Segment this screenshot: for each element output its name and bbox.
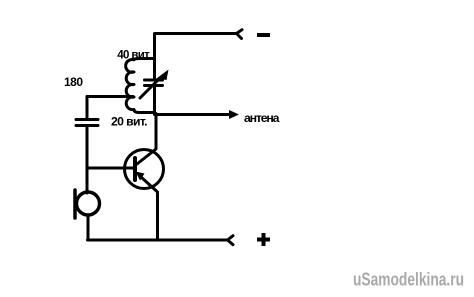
wire microphone to bottom rail bbox=[87, 215, 90, 240]
svg-text:20 вит.: 20 вит. bbox=[111, 114, 148, 128]
terminal fork minus bbox=[237, 30, 243, 39]
microphone BM1 plate bar bbox=[73, 190, 77, 218]
wire bottom rail (plus rail) bbox=[88, 239, 228, 242]
svg-text:антена: антена bbox=[244, 111, 280, 125]
variable capacitor C2 plates bbox=[145, 80, 163, 86]
terminal fork plus bbox=[228, 236, 234, 245]
wire left branch upper bbox=[86, 97, 89, 119]
wire antenna line bbox=[155, 113, 231, 116]
svg-text:uSamodelkina.ru: uSamodelkina.ru bbox=[353, 270, 464, 290]
microphone BM1 circle bbox=[77, 192, 100, 215]
svg-text:40 вит: 40 вит bbox=[117, 49, 150, 61]
transistor VT1 circle bbox=[125, 150, 164, 189]
transistor VT1 base bar bbox=[133, 158, 137, 180]
wire tank right branch vertical (top rail down to variable capacitor) bbox=[153, 34, 156, 80]
wire base wire bbox=[87, 167, 133, 170]
antenna arrowhead bbox=[229, 110, 239, 119]
wire left branch below capacitor bbox=[86, 126, 89, 193]
wire coil tap to left branch bbox=[87, 95, 133, 98]
transistor VT1 emitter with PNP arrow bbox=[141, 177, 158, 240]
wire variable capacitor bottom to tank bottom junction bbox=[153, 86, 156, 114]
capacitor C1 (180) plates bbox=[76, 120, 98, 126]
inductor L1 (tapped coil) bbox=[126, 59, 155, 113]
variable capacitor C2 arrow bbox=[140, 77, 161, 98]
svg-text:180: 180 bbox=[64, 75, 83, 89]
label minus sign bbox=[257, 33, 270, 37]
wire top rail (minus rail) bbox=[155, 32, 237, 35]
transistor VT1 collector bbox=[137, 114, 156, 165]
label plus sign bbox=[257, 233, 270, 246]
